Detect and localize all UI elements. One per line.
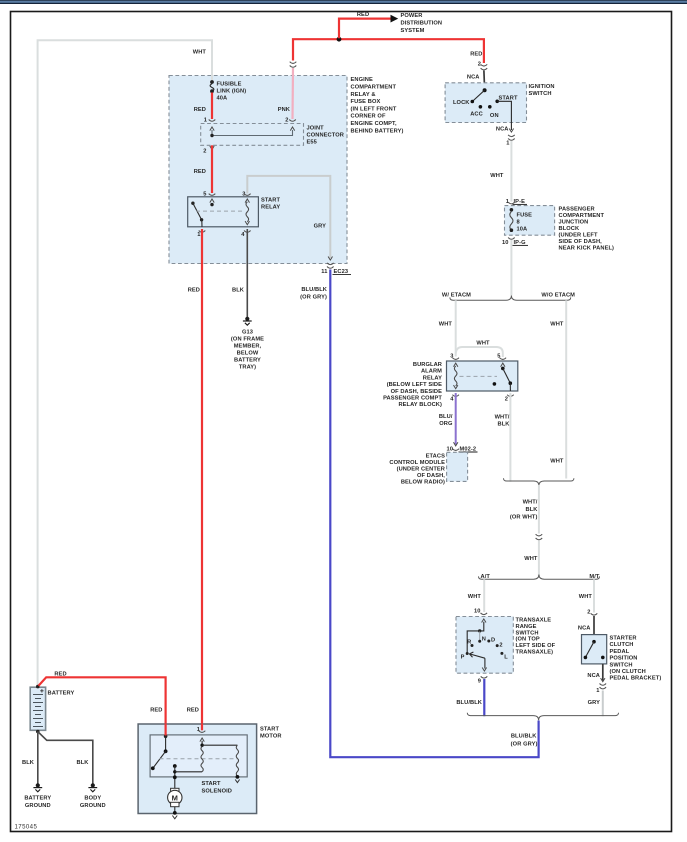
svg-text:CONTROL MODULE: CONTROL MODULE [389,460,445,466]
svg-text:10: 10 [474,609,481,615]
svg-text:2: 2 [505,397,508,403]
wire NCA clutch switch output [602,664,604,681]
svg-text:1: 1 [204,118,207,124]
wire RED branch to power distribution system [339,19,392,39]
svg-text:NCA: NCA [496,127,509,133]
svg-text:BELOW RADIO): BELOW RADIO) [401,480,445,486]
svg-text:TRANSAXLE): TRANSAXLE) [516,650,554,656]
contact N transaxle [478,640,481,643]
svg-text:11: 11 [321,269,327,275]
wire BLK battery to body ground [38,732,93,784]
svg-text:SWITCH: SWITCH [529,91,552,97]
svg-text:(BELOW LEFT SIDE: (BELOW LEFT SIDE [387,382,442,388]
svg-text:ENGINE: ENGINE [351,77,374,83]
svg-text:WHT: WHT [439,322,453,328]
split brace W/ ETACM vs W/O ETACM [450,295,571,300]
passenger compartment junction block [505,206,555,236]
wire BLU/ORG relay pin 4 to ETACS module [455,393,457,445]
svg-text:SWITCH: SWITCH [516,630,539,636]
svg-text:BLU/BLK: BLU/BLK [511,734,537,740]
svg-text:IGNITION: IGNITION [529,84,555,90]
svg-text:(IN LEFT FRONT: (IN LEFT FRONT [351,106,397,112]
svg-text:(OR WHT): (OR WHT) [510,515,538,521]
wire NCA clutch switch input [593,616,595,635]
svg-text:TRAY): TRAY) [239,365,256,371]
svg-text:(UNDER CENTER: (UNDER CENTER [397,467,445,473]
battery plus terminal mark [40,689,43,692]
top navy banner [0,0,687,4]
wire WHT/BLK (OR WHT) merged drop [538,485,540,534]
ETACS control module [447,452,468,481]
svg-text:OF DASH,: OF DASH, [417,473,445,479]
junction node on red bus [337,37,342,42]
merge brace W/ and W/O ETACM recombine [504,478,574,486]
svg-text:40A: 40A [217,96,228,102]
svg-text:ALARM: ALARM [421,369,442,375]
svg-text:PEDAL BRACKET): PEDAL BRACKET) [610,676,662,682]
coil burglar alarm relay [454,363,458,367]
wire from START contact out of ignition switch [497,101,511,130]
wire BLU/BLK (OR GRY) EC23 down-right riser [330,270,538,758]
svg-text:WHT/: WHT/ [495,415,510,421]
svg-text:RELAY: RELAY [423,375,442,381]
wire RED fusible link to joint connector pin 1 [211,93,213,120]
svg-text:RED: RED [194,169,206,175]
contact R transaxle [471,644,474,647]
svg-text:MEMBER,: MEMBER, [234,344,262,350]
svg-text:SWITCH: SWITCH [610,662,633,668]
node battery negative post [36,730,40,734]
svg-text:SOLENOID: SOLENOID [202,789,233,795]
svg-text:BLU/: BLU/ [439,414,453,420]
svg-text:WHT: WHT [524,556,538,562]
svg-text:10A: 10A [517,227,528,233]
battery plates [33,695,43,727]
wire WHT M/T branch to clutch switch [593,579,595,612]
switch arm transaxle [470,654,485,658]
merge brace A/T and M/T recombine [467,713,618,721]
svg-text:L: L [504,655,508,661]
svg-text:BATTERY: BATTERY [48,691,75,697]
svg-text:1: 1 [197,232,200,238]
svg-text:CLUTCH: CLUTCH [610,642,634,648]
svg-text:2: 2 [499,643,502,649]
svg-text:FUSE BOX: FUSE BOX [351,99,381,105]
svg-text:(ON CLUTCH: (ON CLUTCH [610,669,646,675]
svg-text:BEHIND BATTERY): BEHIND BATTERY) [351,128,404,134]
solenoid hold-in coil [202,744,237,746]
svg-text:POSITION: POSITION [610,656,638,662]
node pin 1 ignition switch [508,135,515,137]
wire RED relay feed at start motor pin 1 [201,724,203,731]
svg-text:GROUND: GROUND [25,803,51,809]
svg-text:A/T: A/T [481,574,491,580]
svg-text:RELAY: RELAY [261,205,280,211]
joint connector E55 [201,124,304,146]
svg-text:GRY: GRY [314,224,327,230]
fusible link (IGN) 40A [210,80,214,84]
wire RED top feed bus [293,39,484,63]
wire BLK battery to battery ground [37,732,39,784]
contact 2 transaxle [496,644,499,647]
svg-text:G13: G13 [242,330,253,336]
svg-text:NCA: NCA [578,626,591,632]
svg-text:SIDE OF DASH,: SIDE OF DASH, [559,239,603,245]
svg-text:RED: RED [150,708,162,714]
coil start relay [245,199,249,203]
fuse 8 10A [510,208,514,212]
svg-text:E55: E55 [307,140,317,146]
svg-text:BLOCK: BLOCK [559,226,581,232]
svg-text:WHT: WHT [579,594,593,600]
svg-text:10: 10 [502,240,509,246]
svg-text:DISTRIBUTION: DISTRIBUTION [401,21,443,27]
svg-text:COMPARTMENT: COMPARTMENT [351,85,397,91]
svg-text:RED: RED [188,288,200,294]
svg-text:2: 2 [285,118,288,124]
wire RED start relay pin 1 to start motor [201,229,203,731]
svg-text:BLK: BLK [77,760,90,766]
svg-text:WHT: WHT [550,322,564,328]
svg-text:10: 10 [446,447,453,453]
svg-text:D: D [491,638,495,644]
svg-text:BLK: BLK [526,507,539,513]
wire NCA ignition switch input [483,71,486,90]
transaxle range switch [456,617,513,674]
svg-text:ORG: ORG [439,421,453,427]
svg-text:JUNCTION: JUNCTION [559,220,589,226]
svg-text:BLK: BLK [232,288,245,294]
svg-text:BLK: BLK [22,760,35,766]
svg-text:BATTERY: BATTERY [24,796,51,802]
svg-text:WHT: WHT [476,341,490,347]
svg-text:1: 1 [506,141,509,147]
svg-text:FUSE: FUSE [517,213,533,219]
svg-text:RED: RED [187,708,199,714]
wire WHT W/ ETACM branch to burglar alarm relay pin 3 [455,300,457,356]
start motor [138,724,257,814]
svg-text:ETACS: ETACS [426,454,445,460]
svg-text:2: 2 [587,610,590,616]
svg-text:ENGINE COMPT,: ENGINE COMPT, [351,121,397,127]
svg-text:(ON TOP: (ON TOP [516,637,540,643]
wire WHT jumper to relay pin 5 [456,347,503,357]
svg-text:START: START [202,781,221,787]
svg-text:RED: RED [470,52,482,58]
wire PNK to joint connector pin 2 [291,68,294,119]
svg-text:CONNECTOR: CONNECTOR [307,133,344,139]
svg-text:BODY: BODY [84,796,101,802]
svg-text:N: N [482,637,486,643]
node pin 10 IP-G [508,238,515,240]
svg-text:W/ ETACM: W/ ETACM [442,293,471,299]
svg-text:NEAR KICK PANEL): NEAR KICK PANEL) [559,246,615,252]
svg-text:JOINT: JOINT [307,126,325,132]
wire GRY start relay pin 3 to EC23 [247,176,330,258]
svg-text:1: 1 [596,688,599,694]
contact D transaxle [487,640,490,643]
contact L transaxle [500,652,503,655]
solenoid pull-in coil [200,738,204,742]
svg-text:BLK: BLK [498,422,511,428]
svg-text:MOTOR: MOTOR [260,734,282,740]
svg-text:RELAY &: RELAY & [351,92,376,98]
wire WHT W/O ETACM branch [565,300,567,478]
svg-text:RED: RED [54,672,66,678]
svg-text:ACC: ACC [470,111,483,117]
svg-text:TRANSAXLE: TRANSAXLE [516,618,552,624]
svg-text:W/O ETACM: W/O ETACM [541,293,575,299]
svg-text:ON: ON [490,113,499,119]
body ground [88,783,97,792]
svg-text:BLU/BLK: BLU/BLK [456,700,482,706]
engine compartment relay & fuse box E55 [169,76,347,264]
inline connector on PNK drop [290,62,297,64]
wire BLU/BLK transaxle to merge [483,679,485,716]
svg-text:LEFT SIDE OF: LEFT SIDE OF [516,643,556,649]
ignition switch [445,83,526,123]
wire WHT to transmission split [538,541,540,577]
svg-text:START: START [260,727,279,733]
svg-text:175045: 175045 [15,824,38,831]
svg-text:FUSIBLE: FUSIBLE [217,82,242,88]
mechanical link solenoid [160,758,238,760]
svg-text:RED: RED [194,107,206,113]
inline connector on merged wire [536,534,543,536]
svg-text:RELAY BLOCK): RELAY BLOCK) [398,402,442,408]
svg-text:POWER: POWER [401,13,423,19]
svg-text:WHT/: WHT/ [523,500,538,506]
svg-text:BURGLAR: BURGLAR [413,362,442,368]
svg-text:EC23: EC23 [334,269,349,275]
svg-text:NCA: NCA [467,75,480,81]
start relay [188,197,259,227]
svg-text:START: START [499,96,518,102]
svg-text:2: 2 [203,149,206,155]
solenoid battery stud [164,734,168,738]
wire RED battery to start motor [39,677,166,735]
svg-text:COMPARTMENT: COMPARTMENT [559,213,605,219]
svg-text:OF DASH, BESIDE: OF DASH, BESIDE [391,389,443,395]
svg-text:START: START [261,198,280,204]
starter clutch pedal position switch [582,635,607,664]
svg-text:PNK: PNK [278,107,291,113]
svg-text:9: 9 [478,679,481,685]
svg-text:RED: RED [357,12,369,18]
switch contacts burglar alarm relay [501,363,505,367]
svg-text:STARTER: STARTER [610,636,637,642]
svg-text:P: P [461,655,465,661]
svg-text:R: R [467,640,471,646]
svg-text:BATTERY: BATTERY [234,358,261,364]
battery [30,687,45,730]
node pin 1 clutch switch [600,684,607,686]
svg-text:WHT: WHT [468,594,482,600]
inline connector ignition feed [481,64,488,66]
svg-text:(ON FRAME: (ON FRAME [231,337,264,343]
svg-text:BELOW: BELOW [237,351,259,357]
svg-text:(UNDER LEFT: (UNDER LEFT [559,233,598,239]
start motor M [174,777,176,788]
svg-text:M/T: M/T [589,574,600,580]
split brace A/T vs M/T [479,575,600,580]
svg-text:LINK (IGN): LINK (IGN) [217,89,247,95]
wire WHT ignition to fuse 8 [510,141,512,202]
battery ground [33,783,42,792]
svg-text:LOCK: LOCK [453,100,470,106]
svg-text:GRY: GRY [588,700,601,706]
wire WHT A/T branch to transaxle range switch [483,579,485,612]
wire WHT/BLK relay pin 2 down to merge [509,393,511,482]
svg-text:(OR GRY): (OR GRY) [511,742,538,748]
svg-text:NCA: NCA [587,673,600,679]
svg-text:8: 8 [517,220,520,226]
start solenoid [150,735,247,777]
wire WHT from battery feed, top-left run [38,40,212,686]
svg-text:BLU/BLK: BLU/BLK [301,287,327,293]
ground G13 [243,317,252,326]
svg-text:PEDAL: PEDAL [610,649,630,655]
wire WHT fuse to split [510,240,512,296]
svg-text:SYSTEM: SYSTEM [401,28,425,34]
svg-text:WHT: WHT [193,50,207,56]
node connector EC23 pin 11 [328,257,332,261]
svg-text:GROUND: GROUND [80,803,106,809]
wire RED battery feed inside start motor box [165,724,167,736]
solenoid contact switch [165,736,167,751]
arrow to power distribution system [391,15,399,23]
burglar alarm relay [447,361,518,391]
wire RED joint connector to start relay pin 5 [211,145,213,193]
svg-text:WHT: WHT [550,459,564,465]
node battery positive post [36,685,40,689]
svg-text:M: M [172,793,178,802]
svg-text:WHT: WHT [490,173,504,179]
node pin 9 transaxle range switch [481,676,488,678]
svg-text:CORNER OF: CORNER OF [351,114,386,120]
svg-text:PASSENGER: PASSENGER [559,207,595,213]
contact P transaxle [466,652,469,655]
svg-text:(OR GRY): (OR GRY) [300,295,327,301]
svg-text:RANGE: RANGE [516,624,537,630]
wire GRY clutch switch to merge [602,691,604,717]
svg-text:PASSENGER COMPT: PASSENGER COMPT [383,396,442,402]
node pin 10 M02-2 [454,442,458,446]
wire BLK start relay pin 4 to ground G13 [246,229,248,318]
